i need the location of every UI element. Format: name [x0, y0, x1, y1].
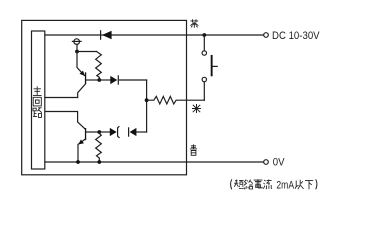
node: Q2 emitter on rail: [76, 160, 80, 164]
label ※ (note mark): [192, 104, 201, 113]
transistor Q2 (NPN): [45, 112, 86, 163]
node: R3 bottom on rail: [97, 160, 101, 164]
wire: vertical bus V1: [146, 80, 148, 132]
label 青 (blue wire): [190, 144, 197, 155]
wire: D2 to vertical bus: [119, 79, 147, 81]
label 茶 (brown wire): [190, 19, 198, 28]
wire: junction to zener D3: [99, 131, 110, 133]
resistor R1 (vertical): [96, 52, 102, 81]
node A: emitter node junction: [75, 50, 79, 54]
svg-text:DC 10-30V: DC 10-30V: [272, 30, 320, 42]
resistor R2 (horizontal): [147, 96, 205, 104]
電: [254, 179, 263, 188]
terminal: 0V: [264, 160, 269, 165]
）: [316, 179, 317, 189]
diode D4 (cathode left, facing D3): [129, 128, 137, 136]
wire: D4 to vertical bus bottom: [136, 131, 146, 133]
zener diode D3 (anode left): [110, 126, 120, 138]
node: bus / R2 junction: [145, 98, 149, 102]
以: [295, 180, 304, 189]
transistor Q1 (PNP): [45, 52, 86, 98]
絡: [244, 180, 253, 190]
wire: +V line from main circuit to DC terminal: [45, 34, 264, 36]
wire: Q2 base lead: [86, 131, 99, 133]
下: [305, 181, 313, 190]
node: Q1 base / R1 bottom junction: [97, 78, 101, 82]
diode D2 (anode left): [110, 76, 118, 84]
main circuit block 主回路 box: [32, 31, 45, 169]
terminal: DC 10-30V: [264, 33, 269, 38]
label 主回路 (vertical, hand-drawn): [33, 86, 42, 117]
node: junction on +V line: [202, 33, 206, 37]
wire: Q1 base lead: [86, 79, 99, 81]
contact SW1 actuator bar: [211, 55, 218, 76]
流: [263, 180, 272, 190]
svg-text:2mA: 2mA: [276, 180, 294, 192]
（: [231, 179, 232, 189]
wire: external contact lower lead: [203, 82, 205, 100]
contact SW1 lower terminal: [202, 77, 206, 81]
短: [234, 180, 244, 189]
node: Q2 base / R3 top junction: [97, 130, 101, 134]
svg-text:0V: 0V: [273, 157, 285, 169]
note: （短絡電流 2mA以下）: [231, 179, 272, 189]
wire: 0V rail: [45, 161, 264, 163]
wire: +V junction to contact: [203, 35, 205, 51]
sensor enclosure outer box: [22, 20, 187, 174]
resistor R3 (vertical): [96, 132, 102, 162]
contact SW1 upper terminal: [202, 51, 206, 55]
diode D1 (reverse protection, cathode left): [101, 31, 112, 40]
indicator / CRD D5 (circle with bar): [72, 39, 81, 50]
wire: junction to diode D2: [99, 79, 110, 81]
wire: node A to resistor R1 top: [77, 51, 97, 53]
